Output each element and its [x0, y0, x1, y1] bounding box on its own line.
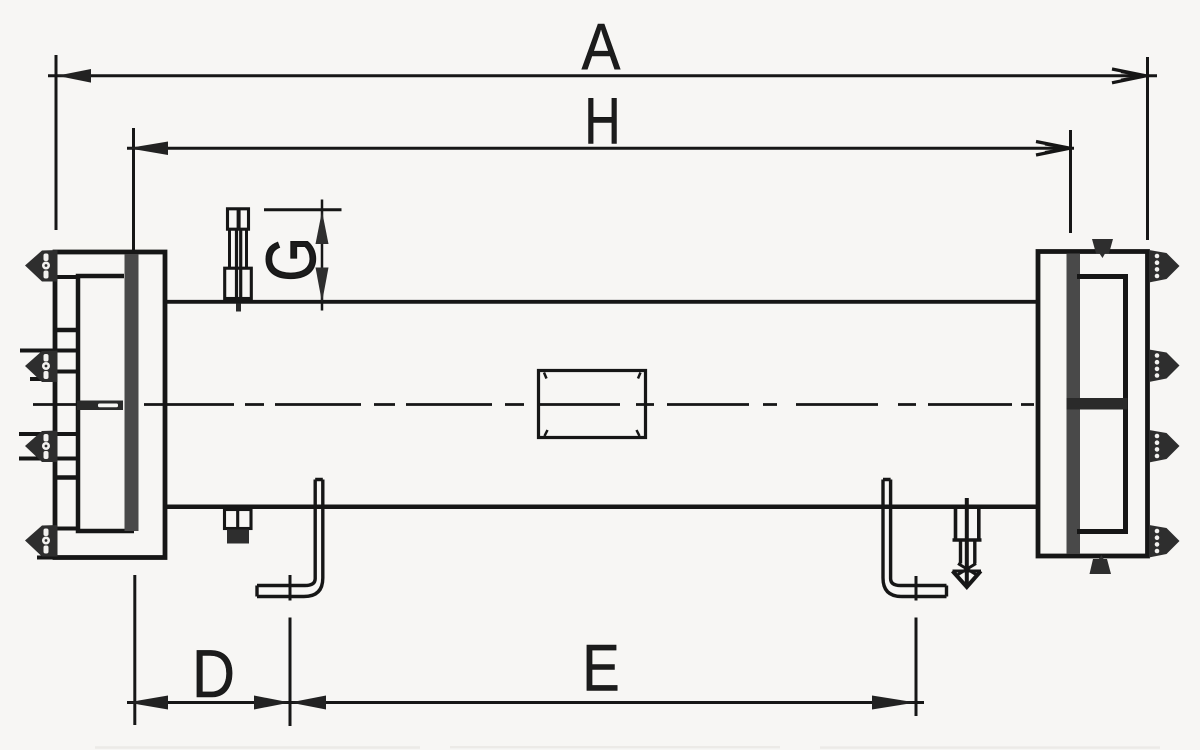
right pass partition bar — [1067, 398, 1128, 410]
dimension G upper arrowhead — [316, 211, 329, 244]
dimension A line — [48, 74, 1157, 77]
dimension D/E line — [127, 701, 924, 704]
dimension G lower arrowhead — [316, 268, 329, 303]
dimension G vertical line — [321, 200, 324, 311]
dimension H right arrowhead — [1036, 142, 1070, 156]
dimension A right extension line — [1146, 57, 1149, 240]
left head bolt 3 shaft lines — [19, 434, 78, 459]
left channel head outer rect — [55, 252, 165, 558]
right head top axial bolt — [1092, 239, 1113, 258]
left head stud rung — [57, 328, 78, 333]
bottom scan shadow — [95, 746, 1160, 749]
left head bolt 4 slots — [42, 529, 50, 554]
top nozzle bolt box — [228, 209, 249, 229]
bottom left nozzle box — [225, 510, 252, 529]
shell top line — [167, 300, 1038, 304]
nameplate rect — [539, 371, 646, 438]
left head bolt 2 slots — [42, 354, 50, 379]
left head bolt 2 shaft lines — [20, 351, 78, 380]
svg-text:D: D — [192, 635, 235, 712]
left head bolt 2 — [25, 351, 58, 383]
top nozzle box center line — [237, 209, 241, 229]
drain nozzle narrow body — [961, 540, 975, 564]
dimension G tick line — [264, 208, 342, 211]
left head bolt 4 — [25, 525, 58, 557]
top nozzle pipe walls — [230, 229, 247, 268]
bottom left nozzle center line — [236, 510, 239, 529]
left head bolt 1 — [25, 250, 58, 282]
right channel cavity outline — [1077, 277, 1126, 532]
left head bolt 1 shaft lines — [48, 275, 78, 279]
right head bolt 1 thread dots — [1155, 254, 1160, 279]
drain nozzle tip vee — [953, 571, 981, 587]
bottom left nozzle plug — [227, 530, 249, 544]
left head bolt 1 slots — [42, 254, 50, 279]
left head bolt 4 shaft lines — [37, 529, 78, 558]
right head bolt 3 thread dots — [1155, 434, 1160, 459]
right head bolt 4 — [1149, 525, 1180, 558]
drain nozzle center line — [965, 498, 969, 584]
right head bolt 2 thread dots — [1155, 353, 1160, 378]
right support bracket — [883, 480, 947, 597]
right head bolt 4 thread dots — [1155, 529, 1160, 554]
dimension H right extension line — [1069, 130, 1072, 233]
dimension A left arrowhead — [57, 69, 91, 83]
svg-text:G: G — [252, 237, 330, 281]
svg-text:H: H — [584, 85, 620, 158]
dimension E right arrowhead — [872, 696, 916, 710]
right head bolt 3 — [1149, 430, 1180, 463]
right channel head outer rect — [1038, 252, 1148, 557]
drain nozzle tip bar — [953, 570, 982, 573]
left head stud rung lower — [57, 475, 78, 480]
right head bolt 2 — [1149, 350, 1180, 383]
left tube sheet (grey strip) — [125, 255, 139, 532]
dimension D left arrowhead — [128, 696, 169, 710]
center line (dash-dot axis) — [33, 403, 1034, 406]
left channel cavity outline — [78, 276, 134, 531]
dimension H left extension line — [132, 128, 135, 250]
svg-text:A: A — [582, 11, 621, 84]
dimension H line — [127, 147, 1074, 150]
shell bottom line — [167, 505, 1038, 510]
dimension H left arrowhead — [128, 142, 168, 156]
drain nozzle wide body — [953, 509, 982, 540]
left pass partition slot — [98, 404, 118, 408]
dimension A right arrowhead — [1112, 69, 1146, 83]
dimension D left extension line — [133, 575, 136, 725]
dimension A left extension line — [55, 55, 58, 230]
nameplate corner ticks — [544, 373, 641, 437]
left support bracket — [257, 480, 323, 597]
right head bottom axial bolt — [1090, 555, 1112, 574]
top nozzle flange — [225, 268, 252, 298]
left head bolt 3 — [25, 431, 58, 463]
drain nozzle cross — [958, 564, 976, 575]
right head bolt 1 — [1149, 250, 1180, 283]
right tube sheet (grey strip) — [1067, 254, 1081, 554]
left head bolt 3 slots — [42, 434, 50, 459]
dimension D/E bowtie arrowheads — [254, 696, 290, 710]
svg-text:E: E — [582, 631, 619, 704]
top nozzle bore lines — [237, 229, 241, 300]
dimension D/E middle extension line — [289, 575, 292, 726]
dimension E right extension line — [915, 576, 918, 716]
top nozzle stub below shell — [236, 304, 241, 312]
left pass partition plate — [77, 401, 123, 411]
